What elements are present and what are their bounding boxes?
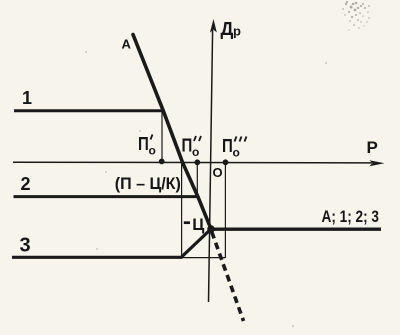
thin drop line from A axis-crossing down to line 3 end — [181, 163, 183, 258]
dashed continuation of A below junction — [212, 232, 244, 321]
svg-text:Ц: Ц — [192, 216, 204, 234]
svg-text:Р: Р — [367, 138, 378, 157]
label П0' — [138, 134, 156, 158]
thin drop line from axis to line 2 end (П0'') — [196, 163, 198, 197]
svg-text:О: О — [213, 165, 223, 180]
svg-text:о: о — [149, 144, 156, 158]
thin horizontal line at line 3 level to the right — [182, 257, 226, 259]
svg-text:Д: Д — [221, 19, 234, 39]
svg-text:1: 1 — [22, 88, 32, 108]
node П0'' dot — [194, 159, 200, 165]
svg-text:П: П — [138, 134, 149, 154]
thin drop line from П0''' down — [224, 163, 226, 259]
stray specks — [85, 17, 370, 327]
line 1 — [14, 109, 164, 112]
line 3 — [12, 256, 183, 259]
segment from line 3 end up to junction — [182, 229, 211, 257]
vertical axis (Д_р axis) — [209, 30, 213, 302]
svg-text:А: А — [122, 37, 132, 52]
svg-text:о: о — [192, 145, 199, 159]
node П0' dot — [159, 159, 165, 165]
svg-text:П: П — [182, 136, 193, 156]
svg-text:р: р — [233, 24, 241, 39]
horizontal axis arrowhead — [369, 160, 384, 166]
scan speckle noise top right — [342, 1, 370, 31]
line 2 — [14, 195, 199, 198]
svg-text:(П – Ц/К): (П – Ц/К) — [115, 174, 181, 193]
svg-text:П: П — [222, 136, 233, 156]
thin drop line from line 1 end to axis (П0') — [161, 112, 163, 161]
horizontal axis (P axis) — [13, 161, 372, 164]
diagonal line A — [133, 35, 211, 230]
svg-text:А; 1; 2; 3: А; 1; 2; 3 — [322, 208, 380, 226]
vertical axis arrowhead — [210, 19, 217, 33]
junction node dot (-Ц point) — [207, 225, 215, 233]
saturation line right of junction (A;1;2;3) — [211, 227, 381, 230]
label П0'' — [182, 136, 202, 160]
node П0''' dot — [223, 159, 229, 165]
label −Ц minus stroke — [184, 221, 190, 224]
svg-text:2: 2 — [21, 174, 31, 194]
svg-text:3: 3 — [20, 235, 31, 257]
label П0''' — [222, 136, 247, 160]
svg-text:о: о — [233, 146, 240, 160]
